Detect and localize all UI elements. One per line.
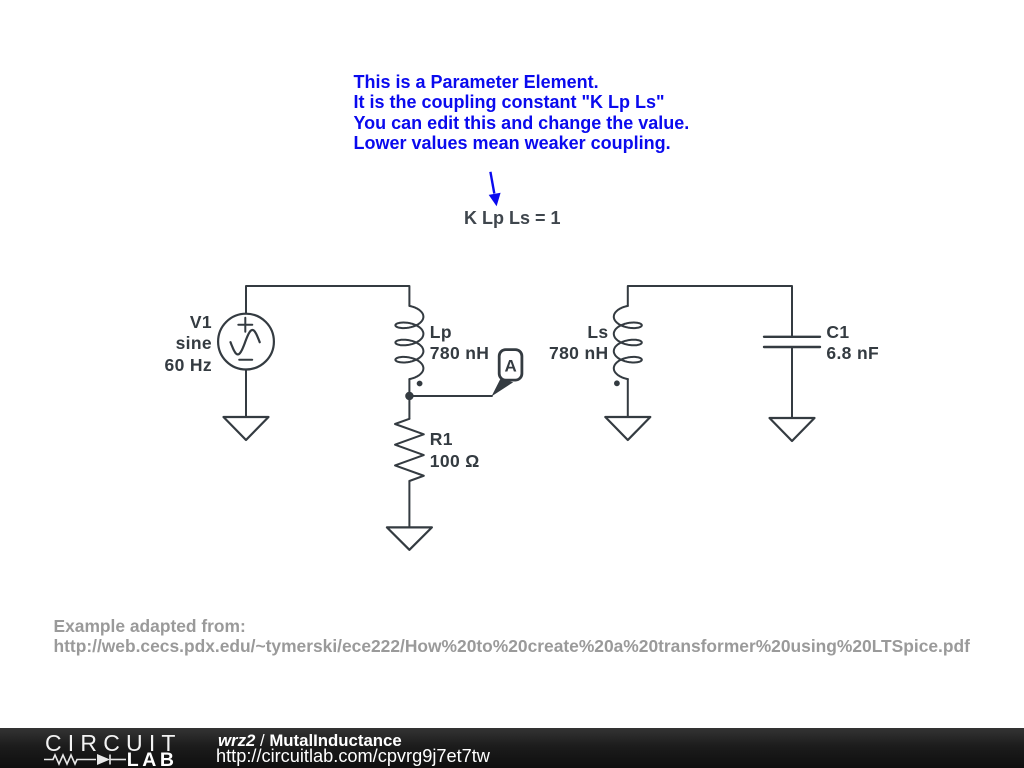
svg-text:A: A — [504, 357, 516, 376]
ground (C1) — [770, 418, 815, 441]
wire: Ls bottom to ground — [627, 379, 629, 417]
resistor R1 zigzag — [395, 419, 424, 481]
Lp phase dot — [417, 381, 423, 387]
wire: V1 bottom to ground — [245, 369, 247, 417]
ground (R1) — [387, 527, 432, 549]
voltage source V1 circle — [218, 314, 274, 370]
node junction dot — [405, 392, 413, 400]
wire: R1 bottom to ground — [408, 481, 410, 527]
footer url — [216, 746, 490, 767]
label R1 100 ohm — [430, 429, 480, 472]
ground (Ls) — [605, 417, 650, 440]
footer bar — [0, 728, 1024, 768]
inductor Lp coil — [395, 306, 423, 379]
Ls phase dot — [614, 380, 620, 386]
logo LAB — [127, 749, 178, 768]
wire: node to probe flag — [409, 395, 492, 397]
V1 plus sign — [238, 318, 252, 332]
wire: top net Ls to C1 — [628, 286, 792, 336]
label Ls 780 nH — [454, 322, 609, 365]
wire: top net V1 to Lp — [246, 286, 409, 314]
label V1 sine 60 Hz — [60, 312, 212, 377]
footer title wrz2 / MutalInductance — [218, 731, 402, 751]
blue arrow shaft — [490, 172, 494, 194]
logo resistor-diode glyph — [44, 752, 134, 768]
label C1 6.8 nF — [826, 322, 879, 365]
logo CIRCUIT — [45, 730, 182, 757]
ground (V1) — [224, 417, 269, 440]
wire: C1 bottom to ground — [791, 348, 793, 418]
label K Lp Ls = 1 — [464, 208, 561, 230]
blue arrow head — [489, 193, 501, 207]
probe flag pointer — [492, 379, 514, 396]
wire: Lp bottom to node — [408, 379, 410, 419]
capacitor C1 plates — [764, 337, 820, 347]
probe flag A box — [499, 350, 522, 381]
V1 sine squiggle — [231, 330, 260, 354]
label Lp 780 nH — [430, 322, 490, 365]
V1 minus sign — [239, 359, 252, 361]
inductor Ls coil — [614, 306, 642, 379]
annotation: blue note text — [354, 72, 690, 154]
caption: example adapted from — [54, 616, 970, 657]
